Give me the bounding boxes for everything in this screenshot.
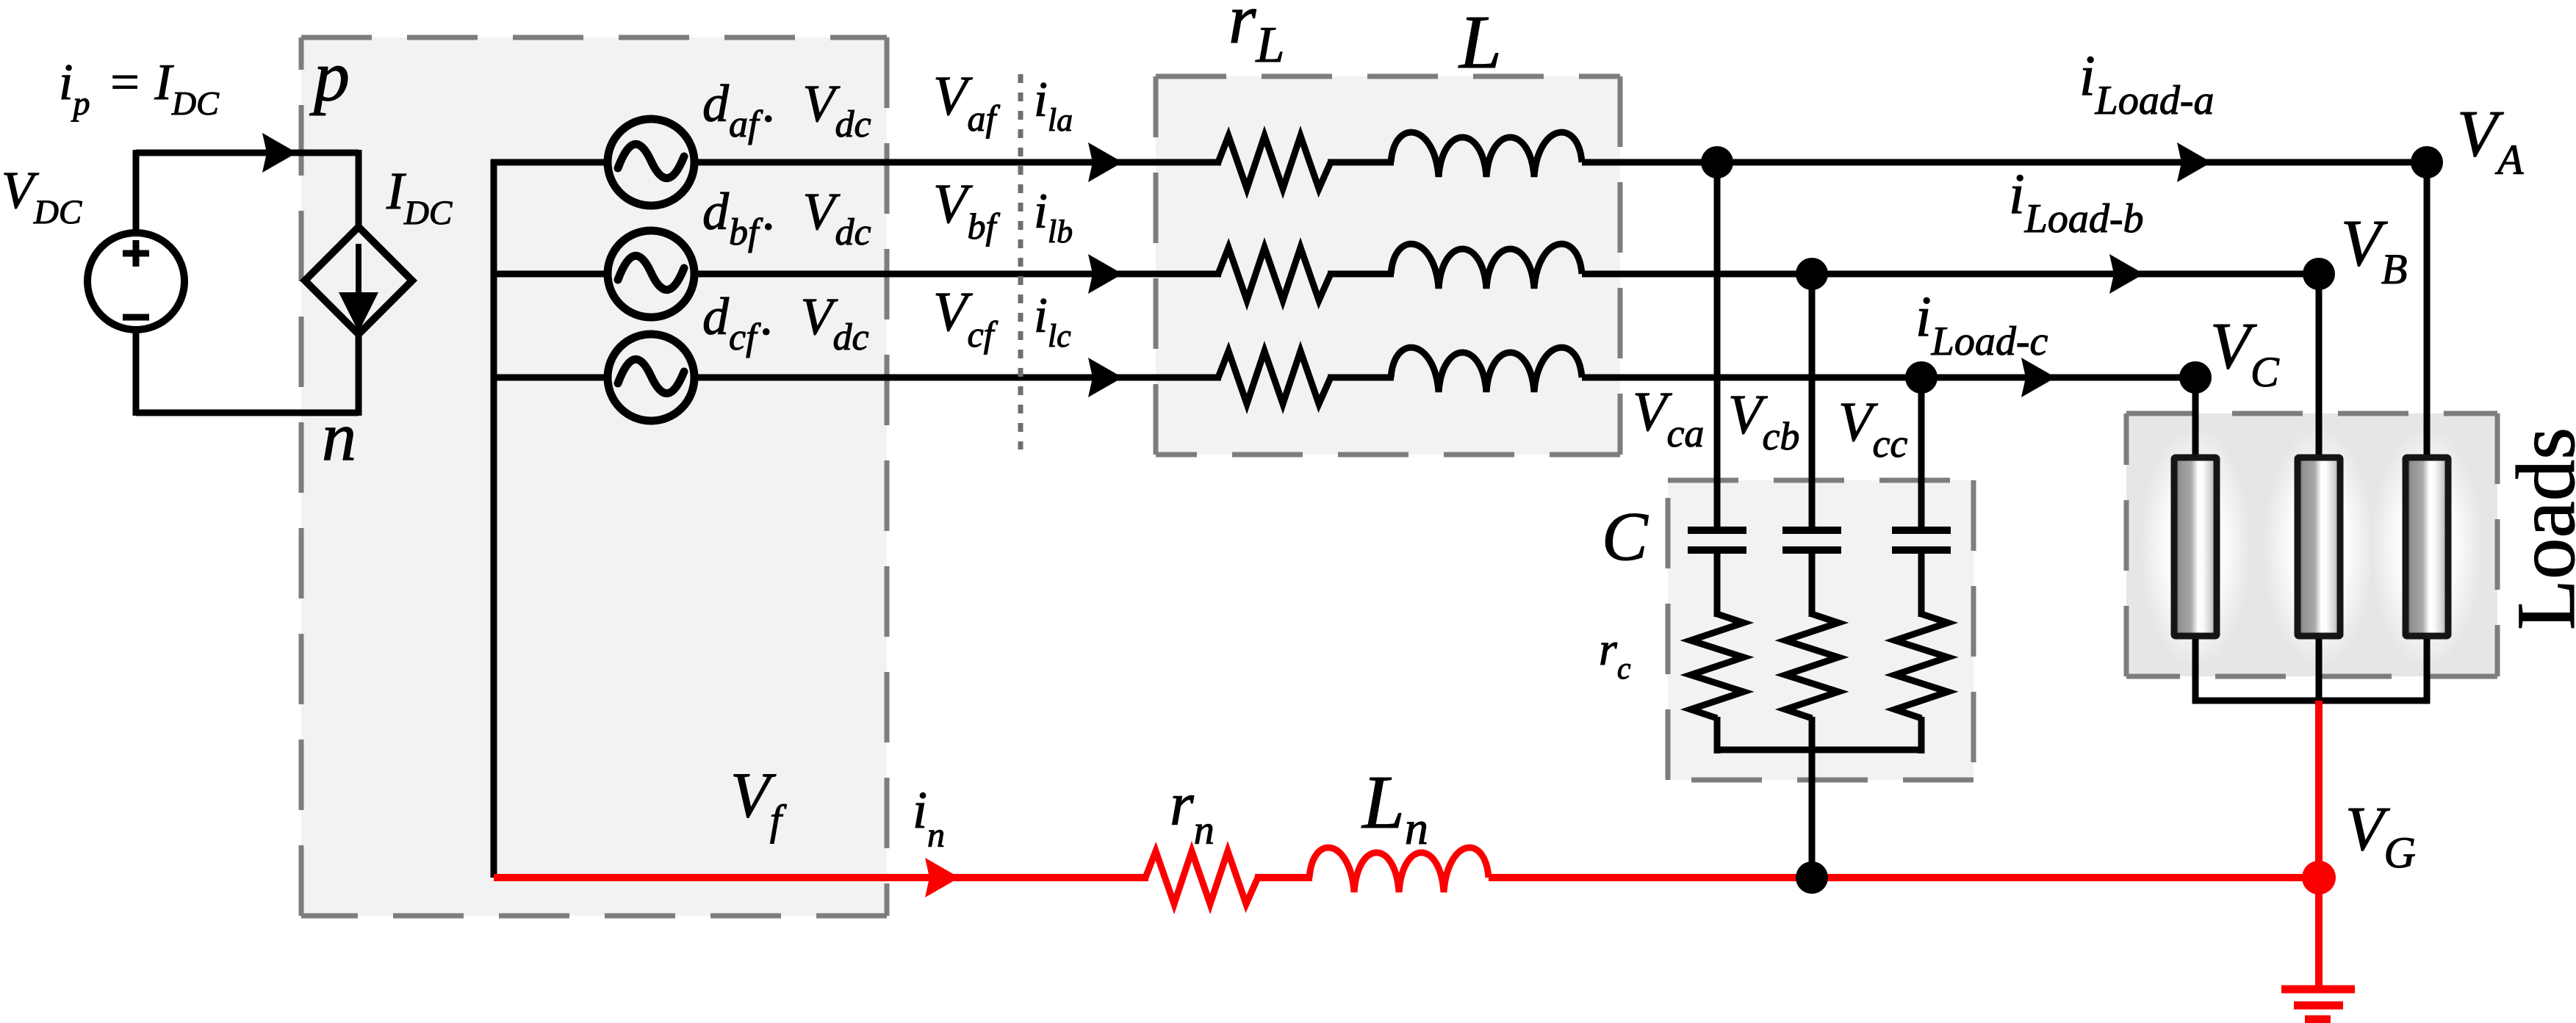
wire: DC loop left bottom [133, 333, 140, 416]
svg-text:ila: ila [1034, 71, 1077, 138]
wire: bus stub phase b [491, 271, 608, 278]
arrow ilb [1088, 254, 1123, 294]
wire: cap to rc phase c [1918, 554, 1925, 617]
resistor rc phase b [1785, 614, 1838, 718]
wire: neutral (red) from inverter [494, 874, 1148, 881]
svg-text:in: in [913, 781, 949, 855]
arrow ila [1088, 142, 1123, 182]
wire: neutral from Ln to ground node [1489, 874, 2319, 881]
svg-text:Vcb: Vcb [1728, 384, 1805, 458]
wire: load VC bottom lead [2192, 639, 2199, 704]
capacitor C phase c [1892, 527, 1951, 534]
wire: cap branch b vertical [1809, 274, 1816, 527]
wire: cap branch a vertical [1714, 162, 1721, 527]
resistor rc phase c [1895, 614, 1948, 718]
svg-text:L: L [1458, 0, 1502, 84]
resistor rn (red) [1145, 851, 1258, 904]
resistor rL phase b [1218, 247, 1331, 300]
voltage source VDC [87, 233, 184, 330]
svg-text:Vcc: Vcc [1838, 391, 1913, 466]
wire: VB down to load [2316, 274, 2323, 458]
wire: DC loop top [136, 150, 359, 156]
wire: VC down to load [2192, 377, 2199, 458]
svg-text:n: n [322, 399, 356, 475]
capacitor C phase b [1782, 527, 1841, 534]
arrow iLoad-c [2021, 358, 2056, 397]
load element VB [2298, 458, 2340, 636]
wire: from diamond to node n [356, 333, 362, 416]
node phase c to cap [1905, 361, 1938, 394]
inductor L phase a [1391, 132, 1582, 177]
resistor rL phase a [1218, 136, 1331, 189]
wire: phase c between rL and L [1328, 375, 1394, 381]
svg-text:VG: VG [2345, 793, 2421, 877]
wire: cap bank to neutral [1809, 750, 1816, 878]
svg-text:rn: rn [1170, 770, 1220, 853]
filter block box (rL, L) [1156, 76, 1620, 455]
wire: into node p [356, 150, 362, 229]
wire: phase c from L to load node [1582, 375, 2195, 381]
wire: inverter internal bus (vertical) [491, 159, 497, 878]
svg-text:C: C [1602, 499, 1649, 575]
load element VC [2174, 458, 2217, 636]
wire: phase c from source to filter [694, 375, 1221, 381]
svg-text:Vbf: Vbf [933, 173, 1001, 247]
svg-text:rL: rL [1228, 0, 1290, 73]
wire: phase b between rL and L [1328, 271, 1394, 278]
AC source dbf.Vdc [608, 231, 694, 317]
capacitor block box (C, rc) [1668, 480, 1974, 780]
svg-text:ilc: ilc [1034, 287, 1075, 354]
node VC [2179, 361, 2212, 394]
inductor L phase c [1391, 347, 1582, 392]
svg-text:Vcf: Vcf [933, 281, 999, 355]
load element VA [2406, 458, 2448, 636]
svg-text:VC: VC [2210, 310, 2284, 396]
svg-text:iLoad-c: iLoad-c [1915, 284, 2053, 364]
resistor rL phase c [1218, 351, 1331, 404]
wire: bus stub phase a [491, 159, 608, 166]
node neutral-capacitor junction [1796, 861, 1828, 894]
arrow ilc [1088, 358, 1123, 397]
wire: DC loop left top [133, 150, 140, 231]
svg-text:iLoad-a: iLoad-a [2079, 43, 2219, 123]
arrow iLoad-b [2109, 254, 2144, 294]
node VA [2411, 146, 2443, 178]
wire: phase a from L to load node [1582, 159, 2427, 166]
inductor Ln (red) [1309, 847, 1489, 892]
arrow in (neutral current, red) [925, 858, 960, 897]
wire: cap to rc phase b [1809, 554, 1816, 617]
svg-text:ilb: ilb [1034, 183, 1077, 250]
svg-text:iLoad-b: iLoad-b [2009, 162, 2148, 242]
inductor L phase b [1391, 244, 1582, 289]
wire: VA down to load [2424, 162, 2431, 458]
AC source daf.Vdc [608, 119, 694, 206]
wire: DC loop bottom [136, 410, 359, 416]
svg-text:Ln: Ln [1361, 760, 1435, 854]
wire: loads star point to ground (red) [2315, 701, 2323, 878]
wire: loads bottom connector [2192, 698, 2430, 704]
wire: rc bottom lead phase c [1918, 717, 1925, 753]
wire: rc bottom lead phase b [1809, 717, 1816, 753]
inverter averaged-model block (dashed box, nodes p..n) [301, 37, 887, 916]
wire: load VA bottom lead [2424, 639, 2431, 704]
svg-text:VB: VB [2341, 207, 2413, 293]
svg-text:rc: rc [1599, 623, 1635, 686]
measurement dashed line (Vxf reference) [1018, 74, 1023, 449]
AC source dcf.Vdc [608, 334, 694, 421]
wire: VG to ground symbol (red) [2315, 878, 2323, 987]
wire: rc bottom lead phase a [1714, 717, 1721, 753]
svg-text:Vaf: Vaf [933, 65, 1001, 139]
svg-text:VDC: VDC [1, 161, 86, 231]
svg-text:ip = IDC: ip = IDC [59, 54, 223, 122]
wire: phase b from source to filter [694, 271, 1221, 278]
capacitor C phase a [1688, 527, 1746, 534]
wire: phase b from L to load node [1582, 271, 2319, 278]
ground symbol (red) [2281, 986, 2355, 994]
dependent current source IDC (diamond) [305, 227, 412, 334]
svg-text:VA: VA [2457, 98, 2529, 184]
node phase a to cap [1701, 146, 1733, 178]
wire: cap branch c vertical [1918, 377, 1925, 527]
node phase b to cap [1796, 258, 1828, 290]
node VB [2303, 258, 2335, 290]
svg-text:p: p [309, 37, 350, 116]
wire: load VB bottom lead [2316, 639, 2323, 704]
svg-text:Vca: Vca [1633, 381, 1709, 455]
wire: phase a between rL and L [1328, 159, 1394, 166]
wire: bus stub phase c [491, 375, 608, 381]
node VG (red) [2302, 861, 2336, 894]
wire: neutral between rn and Ln [1255, 874, 1312, 881]
arrow iLoad-a [2177, 142, 2212, 182]
svg-text:Loads: Loads [2500, 427, 2576, 630]
wire: rc bottom connector [1714, 747, 1924, 753]
resistor rc phase a [1691, 614, 1744, 718]
wire: cap to rc phase a [1714, 554, 1721, 617]
arrow ip (DC loop current) [262, 133, 297, 173]
wire: phase a from source to filter [694, 159, 1221, 166]
